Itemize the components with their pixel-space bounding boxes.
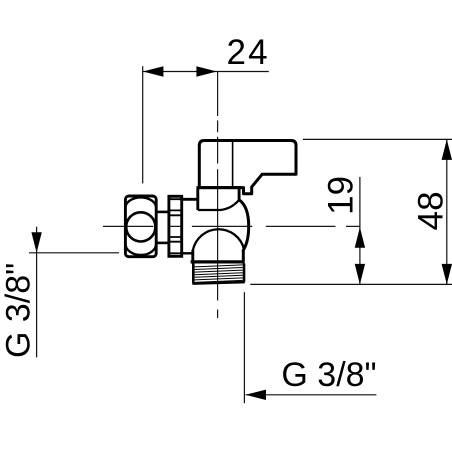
dimension 19: down arrow xyxy=(355,264,365,285)
dimension 19: up arrow xyxy=(355,227,365,248)
dimension 24: left arrow xyxy=(143,66,164,76)
hex nut bottom facet arc xyxy=(125,244,156,255)
threaded outlet: right edge xyxy=(243,264,246,283)
horizontal centerline xyxy=(103,225,360,227)
grooved compression ring xyxy=(169,196,182,256)
body left lower edge xyxy=(191,250,194,261)
left G 3/8 label: extension line xyxy=(29,252,119,254)
threaded outlet: bottom edge xyxy=(192,282,244,284)
body dome arc xyxy=(193,229,244,250)
body bottom flange xyxy=(191,260,245,263)
bottom G 3/8 label: extension line xyxy=(243,292,245,403)
hex nut top facet arc xyxy=(125,197,156,208)
handle hub division line xyxy=(232,141,234,187)
body right bulge xyxy=(239,200,249,261)
dimension 48: down arrow xyxy=(442,264,452,285)
valve handle lever xyxy=(199,141,296,194)
svg-text:G 3/8": G 3/8" xyxy=(0,263,38,358)
dimension 48: top extension line xyxy=(303,138,452,140)
svg-text:19: 19 xyxy=(321,176,360,215)
ring grooves xyxy=(169,199,182,253)
hex nut middle facet circle xyxy=(126,212,155,241)
bonnet top edge xyxy=(197,186,242,189)
threads xyxy=(195,265,243,283)
bonnet right edge xyxy=(238,188,241,200)
bonnet bottom edge with fillet xyxy=(198,200,239,210)
dimension 24: extension line left xyxy=(142,66,144,183)
collar top line ring to body xyxy=(182,198,198,201)
left G 3/8 label: leader line xyxy=(36,227,38,358)
dimension 19: dimension line xyxy=(359,177,361,285)
neck between nut and ring: top line xyxy=(156,211,169,214)
collar bottom line ring to body xyxy=(182,252,193,254)
svg-text:G 3/8": G 3/8" xyxy=(281,356,376,394)
vertical centerline xyxy=(217,72,219,319)
left G 3/8 label: down arrow xyxy=(31,232,41,253)
svg-text:24: 24 xyxy=(226,33,269,72)
dimension 24: right arrow xyxy=(196,66,217,76)
dimension 48: up arrow xyxy=(442,139,452,160)
neck between nut and ring: bottom line xyxy=(156,242,169,245)
bottom G 3/8 label: left arrow xyxy=(246,390,267,400)
dimension 24: dimension line xyxy=(143,71,269,73)
dimension 48: dimension line xyxy=(446,139,448,284)
bottom G 3/8 label: leader line xyxy=(246,394,377,396)
hex swivel nut body xyxy=(125,196,156,257)
threaded outlet: left edge xyxy=(192,264,195,284)
bonnet left edge xyxy=(196,188,199,210)
dimension 48: bottom extension line xyxy=(250,283,452,285)
svg-text:48: 48 xyxy=(411,191,450,230)
